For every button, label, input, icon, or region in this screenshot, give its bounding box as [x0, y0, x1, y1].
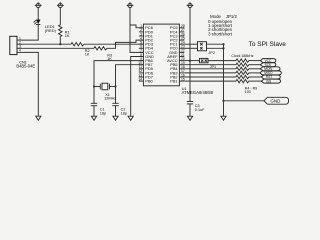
ground arrow U1 GND [128, 116, 133, 120]
svg-text:B4B5-04E: B4B5-04E [16, 64, 35, 69]
label C1 18p [100, 108, 106, 116]
svg-text:18p: 18p [121, 111, 127, 115]
note Mode JP1/2 table [208, 14, 237, 36]
wire JP1 to R4 [208, 60, 236, 62]
capacitor C1 [91, 103, 97, 105]
svg-text:GND: GND [270, 99, 281, 104]
wire VCC to R1 [59, 8, 61, 25]
wire resistor to flag /SS [249, 80, 262, 82]
U1 right pin stubs and numbers [179, 24, 184, 81]
wire resistor to flag MOSI [249, 68, 261, 70]
VCC symbol above R1 [57, 2, 64, 7]
wire crystal right to C2 [115, 87, 117, 104]
svg-text:100: 100 [245, 90, 251, 94]
wire U1 pin17 MOSI row [184, 72, 236, 74]
wire U1 pin23 to JP2 [184, 47, 197, 49]
label R3 1K [107, 54, 112, 61]
label LED1 (RED) [45, 24, 57, 33]
resistor R9 [236, 79, 249, 82]
svg-text:14: 14 [138, 77, 142, 81]
flag /SS [261, 79, 280, 83]
ground arrow C3 [187, 116, 192, 120]
ground arrow rail [221, 116, 226, 120]
crystal X1 [100, 83, 109, 90]
label C3 0.1uF [195, 104, 205, 112]
wire CN1 pin4 to ground [22, 52, 38, 116]
svg-text:4: 4 [19, 49, 21, 53]
U1 left pin names [145, 25, 154, 83]
wire resistor to flag MISO [249, 72, 260, 74]
resistor R7 [236, 71, 249, 74]
svg-text:12MHz: 12MHz [104, 96, 116, 101]
svg-text:3 short/short: 3 short/short [208, 31, 233, 36]
label X1 12MHz [104, 92, 116, 101]
VCC symbol above LED1 [35, 2, 42, 7]
IC U1 body [143, 24, 179, 86]
svg-text:Clock 188kHz: Clock 188kHz [231, 54, 253, 58]
wire R2 to U1 pin5 [84, 43, 143, 45]
node crystal left [93, 85, 95, 87]
label C2 18p [121, 108, 127, 116]
label R4-R9 100 [245, 87, 257, 94]
wire U1 pin10 XTAL2 to crystal [116, 65, 144, 87]
svg-text:18p: 18p [100, 111, 106, 115]
wire C2 to ground [115, 106, 117, 117]
resistor R2 [71, 43, 84, 46]
svg-text:/SS: /SS [266, 79, 271, 83]
wire R1 to node [59, 37, 61, 45]
VCC symbol right [187, 2, 194, 7]
svg-text:PB0: PB0 [145, 79, 153, 84]
wire resistor to flag RST [249, 76, 262, 78]
svg-text:1K: 1K [85, 53, 90, 57]
label R2 1K [85, 49, 90, 56]
ground arrow C1 [91, 116, 96, 120]
svg-text:0.1uF: 0.1uF [195, 108, 205, 112]
junction JP2/rail upper [222, 43, 224, 45]
U1 right pin names [167, 25, 178, 83]
svg-text:ATMEGA8/48/88: ATMEGA8/48/88 [182, 90, 214, 95]
junction R1/R2 wire [59, 43, 61, 45]
resistor R6 [236, 67, 249, 70]
svg-text:To SPI Slave: To SPI Slave [249, 41, 287, 48]
svg-text:1K: 1K [65, 34, 70, 38]
flag MISO [260, 71, 282, 75]
LED LED1 [34, 20, 41, 25]
ground rail right [223, 44, 225, 116]
junction VCC/AVCC [189, 60, 191, 62]
wire LED1 to CN1 pin1 [22, 25, 38, 41]
resistor R1 (vertical) [59, 25, 62, 37]
resistor R5 [236, 63, 249, 66]
flag VCC [260, 59, 276, 63]
node crystal right [114, 85, 116, 87]
wire R3 to U1 pin4 [107, 40, 144, 48]
wire resistor to flag VCC [249, 60, 261, 62]
wire U1 pin20 AVCC to JP1 [184, 60, 199, 62]
capacitor C2 [112, 103, 118, 105]
wire U1 pin1 RESET to VCC [130, 25, 143, 28]
svg-text:JP2: JP2 [208, 51, 215, 55]
label U1 ATMEGA8/48/88 [182, 86, 214, 95]
resistor R3 [94, 47, 107, 50]
flag SCK [260, 63, 276, 67]
label CN1 B4B5-04E [16, 59, 35, 68]
jumper JP2 [198, 42, 207, 51]
wire VCC down to AVCC row [189, 8, 191, 61]
wire U1 pin9 XTAL1 to crystal [94, 61, 143, 87]
wire resistor to flag SCK [249, 64, 261, 66]
junction rail/GND flag wire [222, 100, 224, 102]
flag MOSI [260, 67, 280, 71]
svg-text:(RED): (RED) [45, 28, 57, 33]
wire crystal left to C1 [93, 87, 95, 104]
connector CN1 [10, 36, 22, 54]
wire VCC drop to C3 [189, 61, 191, 102]
ground arrow CN1 [36, 116, 41, 120]
wire VCC to U1 pin7 VCC [130, 8, 143, 53]
ground arrow C2 [113, 116, 118, 120]
wire U1 pin24 to JP2 [184, 43, 197, 45]
junction JP2/rail lower [222, 47, 224, 49]
wire U1 pin8 GND to ground [131, 57, 144, 117]
U1 left pin stubs and numbers [138, 24, 143, 81]
wire U1 pin18 MISO row [184, 68, 236, 70]
wire crystal row [94, 86, 116, 88]
capacitor C3 [187, 102, 193, 104]
flag GND [264, 97, 289, 104]
wire U1 pin15 RST row [184, 80, 236, 82]
svg-text:PB1: PB1 [170, 79, 177, 84]
wire VCC to LED1 [37, 8, 39, 20]
resistor R8 [236, 75, 249, 78]
wire CN1 pin2 to R2 [22, 43, 71, 45]
label R1 1K [65, 31, 70, 39]
flag RST [261, 75, 280, 79]
resistor R4 [236, 59, 249, 62]
wire C3 to ground [189, 104, 191, 116]
wire rail to GND flag [224, 100, 265, 102]
wire U1 pin19 SCK row [184, 64, 236, 66]
wire JP2 to ground rail [207, 44, 224, 48]
jumper JP1 [200, 58, 209, 62]
VCC symbol above U1 [127, 2, 134, 7]
wire CN1 pin3 to R3 [22, 47, 94, 49]
wire C1 to ground [93, 106, 95, 117]
wire U1 pin16 SS row [184, 76, 236, 78]
